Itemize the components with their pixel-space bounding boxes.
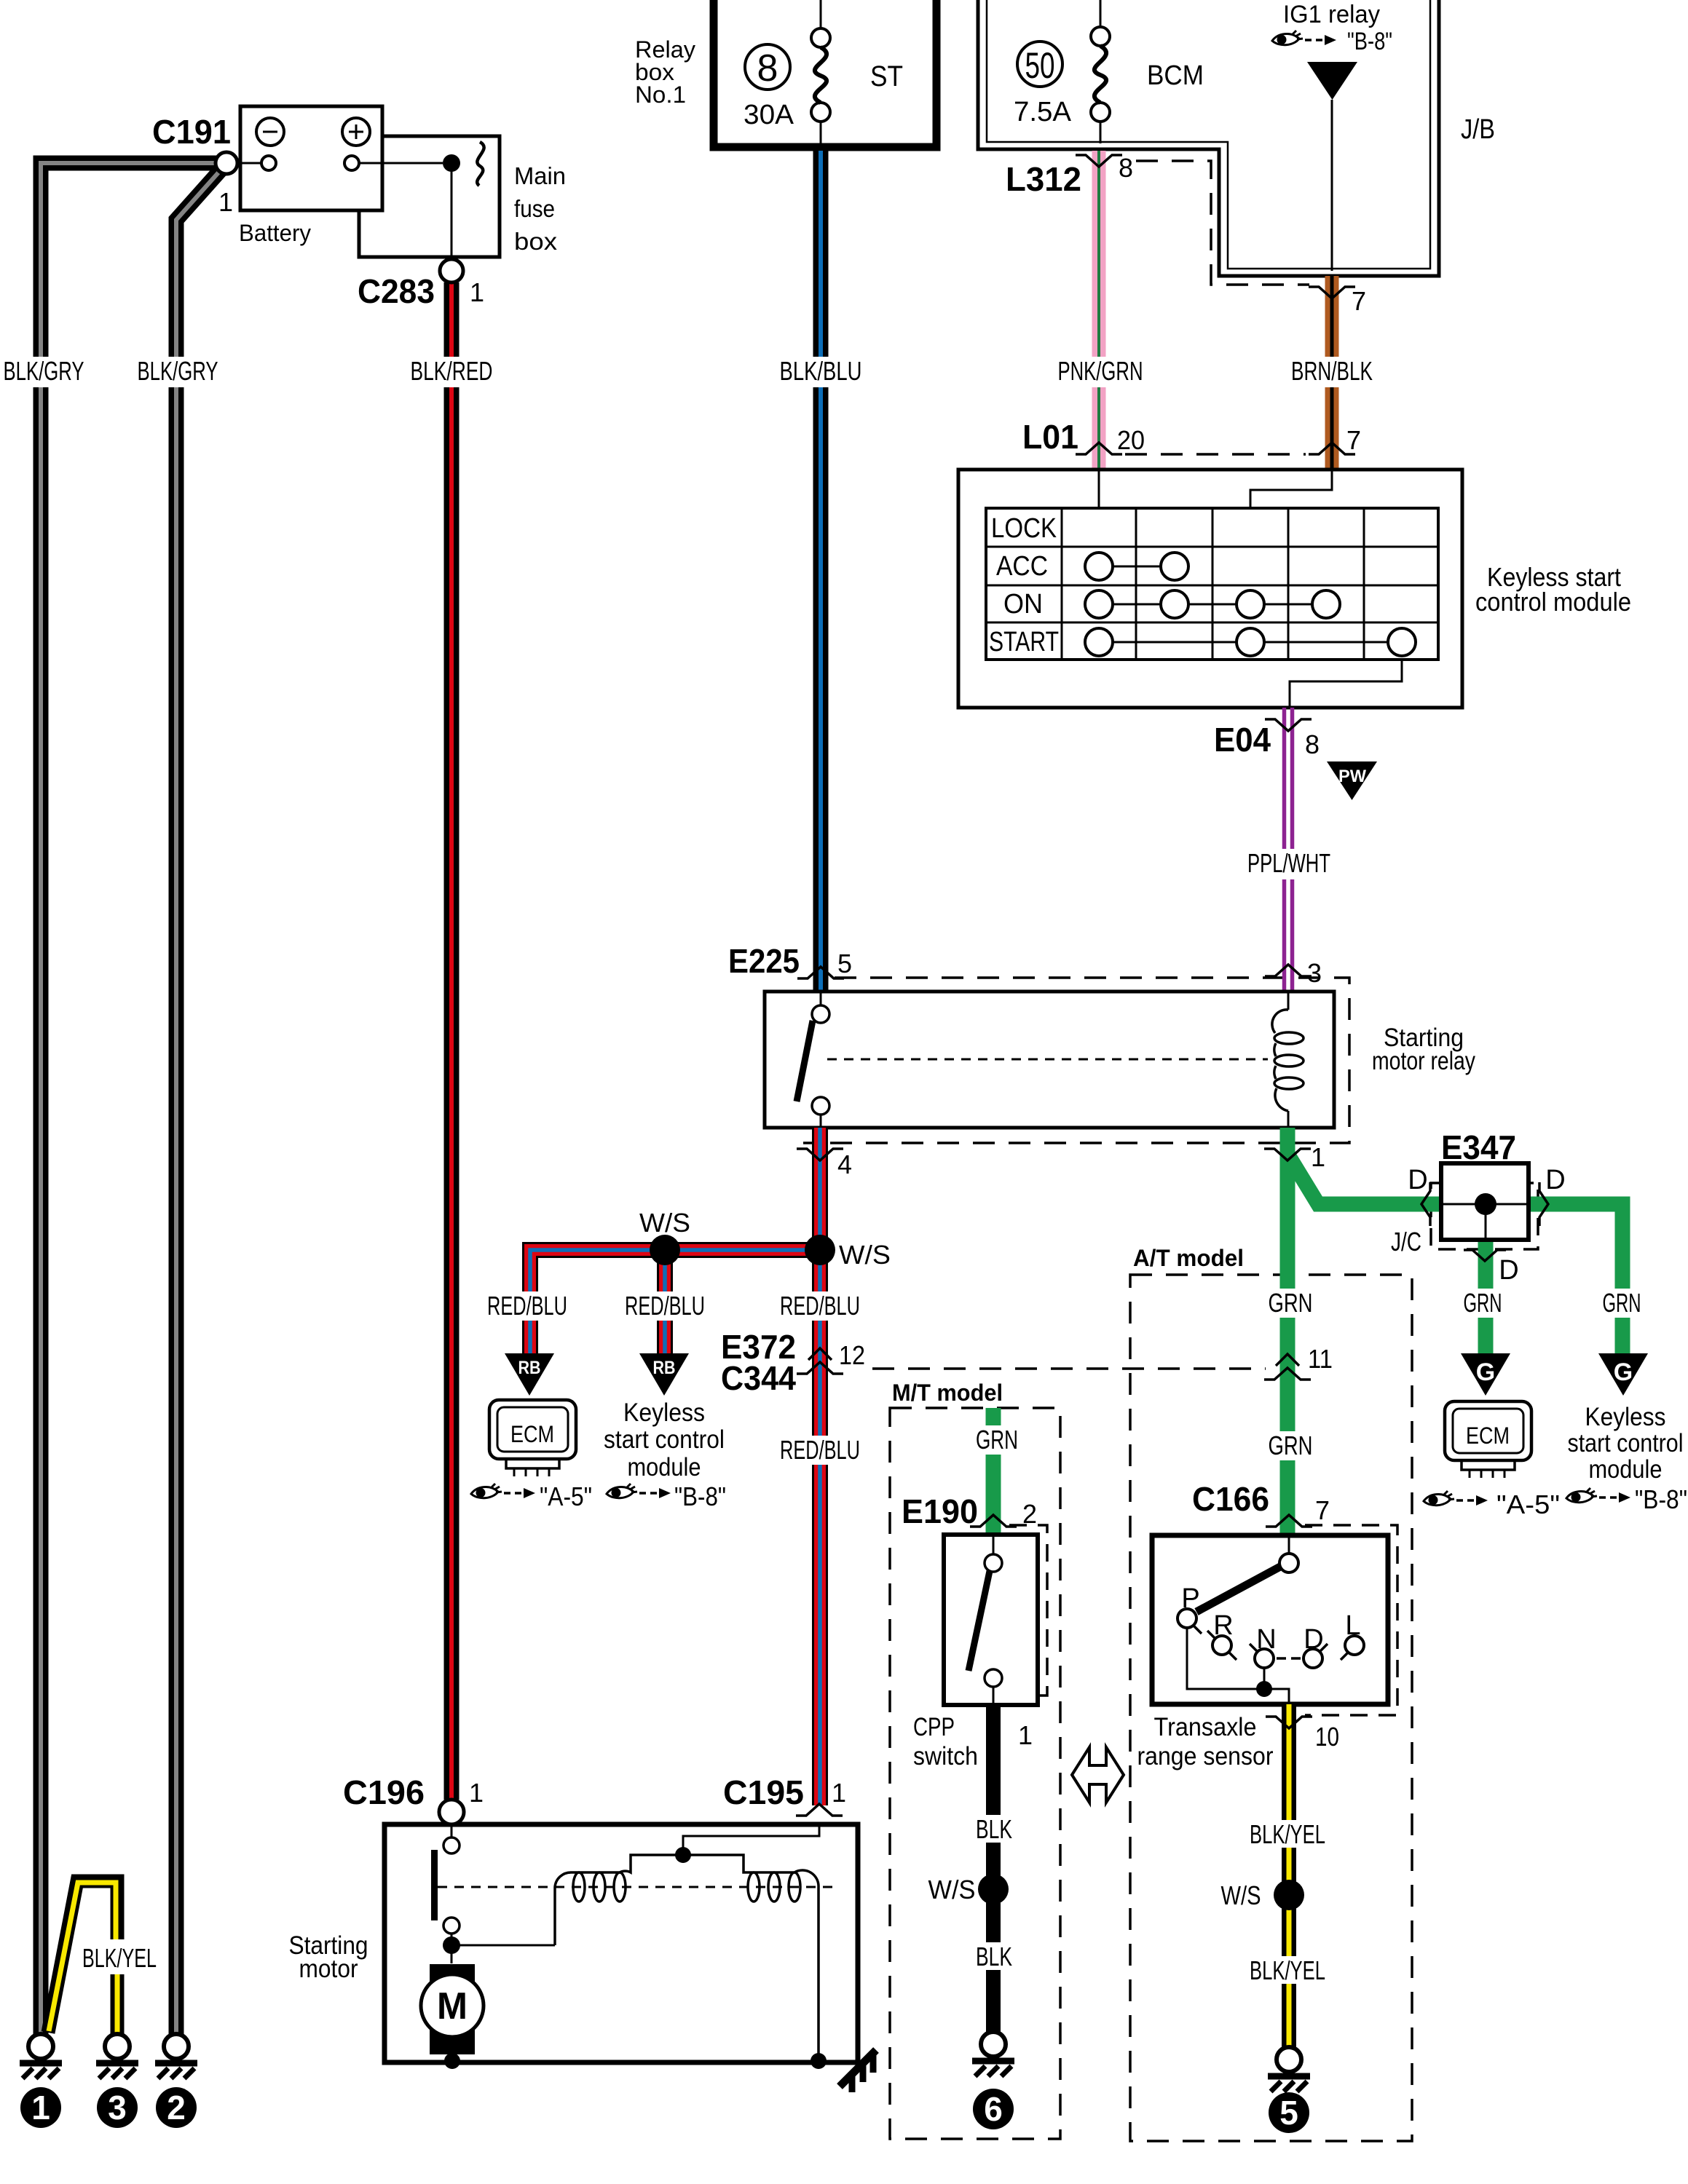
svg-text:W/S: W/S <box>639 1208 690 1238</box>
svg-text:L01: L01 <box>1022 418 1078 456</box>
W/S splice on BLK/YEL wire <box>1274 1880 1304 1910</box>
main fuse box <box>359 136 500 257</box>
svg-text:GRN: GRN <box>1269 1431 1313 1460</box>
C166 pin 7 chevron <box>1266 1515 1312 1527</box>
C166 pin 10 chevron <box>1266 1717 1312 1728</box>
RED/BLU branch to RB arrows <box>530 1250 820 1353</box>
ground 1 <box>20 2034 62 2078</box>
svg-text:1: 1 <box>470 277 484 307</box>
D contact <box>1304 1649 1322 1668</box>
svg-text:RB: RB <box>653 1358 676 1378</box>
svg-text:7.5A: 7.5A <box>1014 97 1072 127</box>
svg-text:5: 5 <box>837 949 852 978</box>
ground 5 <box>1268 2047 1310 2092</box>
svg-text:START: START <box>989 627 1059 657</box>
BLK/YEL bridge wire between ground 1 and ground 3 <box>48 1881 117 2033</box>
sensor selector blade <box>1196 1567 1280 1612</box>
BLK/YEL wire from sensor to ground 5 <box>1282 1704 1296 2047</box>
svg-text:LOCK: LOCK <box>991 513 1057 544</box>
svg-text:M/T model: M/T model <box>892 1380 1003 1406</box>
svg-text:20: 20 <box>1117 425 1145 455</box>
fuse 50 feed wires <box>1100 0 1102 143</box>
eye reference B-8 left <box>607 1484 637 1498</box>
G page arrow to ECM <box>1461 1353 1510 1396</box>
svg-text:2: 2 <box>1022 1499 1037 1529</box>
svg-text:3: 3 <box>108 2089 127 2126</box>
svg-text:E04: E04 <box>1214 721 1271 759</box>
svg-text:RED/BLU: RED/BLU <box>780 1291 860 1321</box>
svg-text:3: 3 <box>1307 958 1322 988</box>
svg-text:C191: C191 <box>152 113 231 151</box>
svg-text:6: 6 <box>984 2090 1003 2128</box>
svg-text:J/C: J/C <box>1391 1227 1421 1257</box>
svg-text:BLK: BLK <box>976 1814 1012 1844</box>
A/T model dashed box <box>1130 1275 1412 2141</box>
svg-text:W/S: W/S <box>839 1240 891 1270</box>
svg-text:8: 8 <box>1119 153 1133 183</box>
svg-text:BRN/BLK: BRN/BLK <box>1291 356 1373 386</box>
RB page arrow to ECM <box>505 1353 554 1396</box>
svg-text:R: R <box>1213 1610 1233 1641</box>
wire from IG1 relay triangle to J/B bottom <box>1331 100 1333 271</box>
connector chevrons <box>797 155 1355 1374</box>
wire label GRN <box>1460 1289 1506 1318</box>
CPP switch box <box>944 1535 1038 1705</box>
svg-text:C196: C196 <box>343 1773 425 1811</box>
svg-text:box: box <box>514 228 558 255</box>
svg-text:PNK/GRN: PNK/GRN <box>1058 356 1143 386</box>
ground 6 <box>972 2032 1014 2076</box>
motor M <box>430 1964 475 2054</box>
dashed connector box around CPP switch <box>1009 1525 1047 1696</box>
svg-text:motor relay: motor relay <box>1372 1047 1475 1075</box>
svg-text:Keyless: Keyless <box>1585 1403 1666 1431</box>
L01 pin 20 chevron <box>1076 443 1122 454</box>
svg-text:module: module <box>628 1453 701 1481</box>
svg-text:8: 8 <box>1305 729 1320 759</box>
svg-text:1: 1 <box>1311 1142 1325 1172</box>
svg-text:Main: Main <box>514 162 566 189</box>
svg-text:No.1: No.1 <box>635 82 686 108</box>
L01 pin 7 chevron <box>1309 443 1355 454</box>
svg-text:P: P <box>1181 1583 1199 1614</box>
sensor common contact <box>1288 1535 1290 1554</box>
PPL/WHT wire <box>1285 708 1293 992</box>
svg-text:module: module <box>1589 1455 1663 1484</box>
wire battery plus terminal to main fuse box junction <box>359 162 443 165</box>
relay switch contact <box>820 992 822 1005</box>
svg-text:50: 50 <box>1025 45 1055 86</box>
dashed centre line in relay <box>827 1059 1268 1061</box>
svg-text:ACC: ACC <box>996 551 1048 582</box>
svg-text:ON: ON <box>1003 589 1043 620</box>
R contact <box>1212 1636 1231 1655</box>
svg-text:E347: E347 <box>1441 1128 1516 1166</box>
svg-text:1: 1 <box>1018 1720 1033 1750</box>
svg-text:1: 1 <box>218 187 233 217</box>
svg-text:C166: C166 <box>1192 1480 1269 1518</box>
ACC row contacts <box>1099 566 1175 568</box>
wire label BLK/BLU <box>776 357 865 387</box>
GRN from E347 bottom to ECM G arrow <box>1478 1240 1494 1353</box>
wire from junction dot to fuse box bottom <box>451 163 453 259</box>
fuse 50 element <box>1091 27 1110 46</box>
svg-text:C283: C283 <box>358 272 435 310</box>
wire label RED/BLU <box>621 1291 709 1321</box>
eye reference B-8 right <box>1566 1488 1597 1503</box>
svg-text:PPL/WHT: PPL/WHT <box>1247 848 1330 878</box>
svg-text:7: 7 <box>1346 425 1361 455</box>
svg-text:BLK/GRY: BLK/GRY <box>4 356 84 386</box>
svg-text:D: D <box>1499 1255 1518 1286</box>
svg-text:GRN: GRN <box>1603 1288 1641 1318</box>
svg-text:G: G <box>1614 1358 1633 1386</box>
svg-text:C195: C195 <box>723 1773 804 1811</box>
wire label GRN <box>1263 1431 1318 1460</box>
N contact <box>1255 1649 1274 1668</box>
svg-text:W/S: W/S <box>1221 1880 1261 1910</box>
GRN stub in M/T model box <box>986 1408 1001 1535</box>
svg-text:5: 5 <box>1279 2094 1298 2132</box>
relay box No.1 <box>714 0 936 147</box>
svg-text:control module: control module <box>1475 587 1631 617</box>
svg-text:1: 1 <box>31 2089 50 2126</box>
svg-text:E225: E225 <box>728 942 800 980</box>
starting motor box <box>384 1824 858 2062</box>
svg-text:switch: switch <box>913 1742 978 1770</box>
E347 bottom D chevron <box>1464 1250 1506 1261</box>
svg-text:"A-5": "A-5" <box>1496 1489 1560 1519</box>
svg-text:N: N <box>1256 1624 1276 1655</box>
svg-text:30A: 30A <box>744 100 794 130</box>
ON row contacts <box>1099 604 1326 606</box>
wire label BLK <box>973 1815 1015 1843</box>
svg-text:L312: L312 <box>1006 160 1081 198</box>
junction dots on starting motor ground rail <box>444 2053 460 2069</box>
fuse 8 circled number <box>745 44 790 90</box>
C283 connector circle <box>440 259 463 282</box>
BLK/RED wire from C283 to C196 <box>444 282 460 1800</box>
pink feed inside module <box>1098 470 1100 508</box>
G page arrow to keyless module <box>1598 1353 1648 1396</box>
svg-text:fuse: fuse <box>514 195 555 222</box>
starting motor relay box <box>765 992 1334 1128</box>
START row output wire to E04 <box>1290 642 1402 708</box>
E347 junction connector box <box>1441 1163 1529 1240</box>
RED/BLU wire from relay pin 4 to C195 <box>812 1128 828 1805</box>
svg-text:A/T model: A/T model <box>1133 1245 1244 1271</box>
dashed connector outline at J/B L312 to IG1 relay pin 7 <box>1136 161 1309 285</box>
svg-text:10: 10 <box>1315 1722 1339 1752</box>
svg-text:8: 8 <box>757 47 778 90</box>
svg-text:motor: motor <box>299 1955 358 1983</box>
fuse 50 circled number <box>1017 41 1062 87</box>
svg-text:G: G <box>1476 1358 1495 1386</box>
svg-text:RED/BLU: RED/BLU <box>625 1291 705 1321</box>
W/S splice dot on red wire left <box>650 1235 680 1265</box>
wire label RED/BLU <box>484 1291 571 1321</box>
svg-text:RED/BLU: RED/BLU <box>487 1291 567 1321</box>
L312 pin 8 chevron <box>1076 155 1122 167</box>
svg-text:12: 12 <box>839 1340 865 1370</box>
svg-text:2: 2 <box>167 2089 186 2126</box>
svg-text:GRN: GRN <box>1464 1288 1502 1318</box>
ground number circles <box>20 2087 61 2128</box>
svg-text:D: D <box>1304 1624 1323 1655</box>
ground 3 <box>96 2034 138 2078</box>
wire label BLK <box>973 1942 1015 1970</box>
ECM icon left <box>489 1400 576 1476</box>
svg-text:E190: E190 <box>902 1492 978 1530</box>
GRN branch to E347 <box>1287 1154 1441 1204</box>
BLK/BLU wire <box>813 151 829 992</box>
junction dot in main fuse box <box>443 154 460 172</box>
dashed connector outline of starting motor relay (E225) <box>803 978 1349 1143</box>
E225 pin 3 chevron <box>1265 965 1312 976</box>
GRN from E347 right to keyless G arrow <box>1529 1204 1622 1353</box>
BLK wire from CPP switch to ground 6 <box>986 1705 1001 2032</box>
svg-text:BLK/YEL: BLK/YEL <box>1250 1819 1325 1849</box>
svg-text:"B-8": "B-8" <box>1635 1484 1687 1514</box>
W/S splice dot on red wire right <box>805 1235 835 1265</box>
E190 pin 2 chevron <box>970 1515 1017 1527</box>
svg-text:D: D <box>1408 1165 1427 1195</box>
svg-text:Keyless: Keyless <box>623 1398 705 1427</box>
eye reference to B-8 for IG1 relay <box>1272 31 1303 45</box>
svg-text:GRN: GRN <box>976 1425 1018 1455</box>
svg-text:PW: PW <box>1338 767 1366 786</box>
svg-text:M: M <box>437 1985 468 2027</box>
ECM icon right <box>1445 1401 1531 1478</box>
svg-text:1: 1 <box>469 1778 484 1808</box>
connector 11 double chevron <box>1264 1354 1311 1380</box>
P contact <box>1178 1609 1196 1628</box>
svg-text:Transaxle: Transaxle <box>1154 1713 1257 1741</box>
svg-text:7: 7 <box>1315 1495 1330 1525</box>
C196 connector circle <box>439 1800 464 1824</box>
wire label BLK/YEL <box>1247 1820 1330 1848</box>
BRN/BLK wire <box>1325 276 1339 470</box>
svg-text:7: 7 <box>1352 286 1366 316</box>
M/T model dashed box <box>890 1408 1060 2139</box>
wire label PPL/WHT <box>1244 849 1334 879</box>
wire label BRN/BLK <box>1287 357 1376 387</box>
dashed line from connector E372/C344 pin 12 to connector pin 11 <box>872 1367 1266 1370</box>
fuse 8 feed wires <box>820 0 822 151</box>
dashed connector box around transaxle range sensor <box>1305 1525 1397 1715</box>
eye reference A-5 right <box>1424 1491 1454 1506</box>
svg-text:"A-5": "A-5" <box>540 1481 592 1511</box>
svg-text:ECM: ECM <box>510 1421 554 1447</box>
J/B junction block double-line box <box>978 0 1439 276</box>
wire colour labels with white background <box>0 356 1645 1985</box>
svg-text:J/B: J/B <box>1461 114 1495 145</box>
svg-text:Battery: Battery <box>239 220 311 246</box>
svg-text:11: 11 <box>1308 1344 1333 1374</box>
wire label BLK/GRY <box>0 357 87 387</box>
battery box <box>240 106 382 210</box>
battery positive terminal <box>344 156 359 170</box>
J/B pin 7 chevron <box>1309 287 1355 298</box>
W/S splice on BLK wire <box>978 1874 1009 1904</box>
eye reference A-5 left <box>471 1484 502 1498</box>
ground 2 <box>155 2034 197 2078</box>
svg-text:4: 4 <box>837 1150 852 1179</box>
wire label RED/BLU <box>776 1291 864 1321</box>
svg-text:GRN: GRN <box>1269 1288 1313 1318</box>
L contact <box>1345 1636 1364 1655</box>
E347 side connector chevrons <box>1421 1182 1430 1226</box>
svg-text:"B-8": "B-8" <box>1347 28 1392 55</box>
BLK/GRY wire 1 from C191 to ground 1 <box>41 163 226 2034</box>
svg-text:BLK/YEL: BLK/YEL <box>1250 1955 1325 1985</box>
wire label GRN <box>1599 1289 1645 1318</box>
CPP switch contact <box>993 1535 995 1554</box>
IG1 relay feed triangle <box>1307 62 1357 100</box>
battery plus symbol <box>342 118 370 146</box>
keyless start control module box <box>958 470 1462 708</box>
E225 pin 4 chevron <box>797 1149 843 1160</box>
dashed connector box around E347 junction <box>1431 1183 1538 1249</box>
ignition switch table <box>986 508 1438 660</box>
svg-text:start control: start control <box>604 1425 725 1454</box>
transaxle range sensor box <box>1152 1535 1388 1704</box>
dashed line through coils <box>438 1886 837 1888</box>
E04 pin 8 chevron <box>1265 719 1312 731</box>
svg-text:BCM: BCM <box>1147 60 1204 91</box>
E372/C344 pin 12 double chevron <box>797 1348 843 1374</box>
svg-text:C344: C344 <box>721 1359 796 1397</box>
wires from P and N to output dot <box>1187 1628 1289 1704</box>
wire label GRN <box>973 1425 1021 1455</box>
svg-text:BLK/BLU: BLK/BLU <box>780 356 862 386</box>
chassis ground at starting motor case <box>840 2050 876 2086</box>
svg-text:"B-8": "B-8" <box>674 1481 726 1511</box>
START row contacts <box>1099 641 1402 644</box>
wire label GRN <box>1263 1289 1318 1318</box>
svg-text:range sensor: range sensor <box>1137 1742 1274 1770</box>
svg-text:RED/BLU: RED/BLU <box>780 1435 860 1465</box>
svg-text:CPP: CPP <box>913 1713 955 1741</box>
brown feed inside module <box>1250 470 1332 508</box>
double arrow between M/T and A/T alternatives <box>1072 1747 1124 1803</box>
svg-text:D: D <box>1545 1165 1565 1195</box>
relay coil <box>1287 992 1290 1010</box>
PNK/GRN wire <box>1092 151 1106 470</box>
wire label PNK/GRN <box>1054 357 1146 387</box>
svg-text:BLK: BLK <box>976 1942 1012 1971</box>
fuse 8 element <box>811 28 830 47</box>
dashed connector line between L01 pin 20 and pin 7 <box>1125 453 1306 456</box>
PW page arrow <box>1327 761 1377 800</box>
E225 pin 1 chevron <box>1264 1149 1311 1160</box>
wire from contact dot to pull-in coil <box>451 1944 555 1947</box>
RB page arrow to keyless module <box>639 1353 689 1396</box>
svg-text:W/S: W/S <box>928 1875 976 1904</box>
svg-text:L: L <box>1345 1610 1360 1641</box>
C191 connector circle <box>216 152 237 174</box>
svg-text:BLK/YEL: BLK/YEL <box>82 1943 157 1973</box>
feed from C195 into coils <box>683 1824 819 1855</box>
pull-in coil <box>555 1855 683 1945</box>
C195 pin 1 chevron <box>796 1804 843 1816</box>
solenoid contact in starting motor <box>451 1824 453 1837</box>
svg-text:BLK/RED: BLK/RED <box>411 356 493 386</box>
svg-text:start control: start control <box>1568 1429 1684 1457</box>
svg-text:ST: ST <box>870 60 903 92</box>
svg-text:BLK/GRY: BLK/GRY <box>138 356 218 386</box>
BLK/GRY wire 2 from C191 to ground 2 <box>176 166 224 2034</box>
GRN wire from relay pin 1 to C166 <box>1280 1128 1295 1535</box>
wire label BLK/YEL <box>1247 1956 1330 1984</box>
E225 pin 5 chevron <box>797 967 844 978</box>
svg-text:RB: RB <box>518 1358 541 1378</box>
svg-text:ECM: ECM <box>1466 1423 1510 1449</box>
wire label BLK/GRY <box>134 357 221 387</box>
fusible link symbol in main fuse box <box>477 142 484 186</box>
hold-in coil <box>683 1855 819 2061</box>
wire label RED/BLU <box>776 1436 864 1465</box>
svg-text:1: 1 <box>832 1778 846 1808</box>
battery minus symbol <box>256 118 284 146</box>
wire battery minus terminal to C191 <box>237 162 261 165</box>
battery negative terminal <box>261 156 276 170</box>
svg-text:IG1 relay: IG1 relay <box>1283 1 1380 28</box>
wire label BLK/RED <box>408 357 496 387</box>
